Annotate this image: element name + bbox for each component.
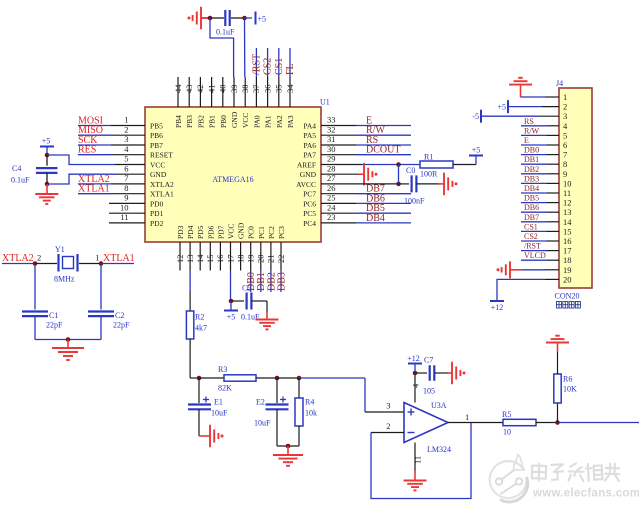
svg-text:PA5: PA5 [303, 131, 316, 140]
wire net DB4 [521, 192, 547, 194]
resistor R4 [295, 398, 303, 426]
svg-text:XTLA1: XTLA1 [150, 190, 174, 199]
wire [277, 377, 299, 379]
svg-text:PB6: PB6 [150, 131, 163, 140]
svg-text:PB7: PB7 [150, 141, 163, 150]
svg-text:C1: C1 [49, 311, 58, 320]
resistor R1 [420, 161, 453, 168]
wire output [558, 422, 639, 424]
watermark logo [490, 455, 528, 502]
ground (C0) [444, 173, 458, 196]
svg-text:2: 2 [386, 421, 390, 431]
wire net DB0 [521, 154, 547, 156]
pin 38 stub [244, 77, 246, 107]
svg-text:1: 1 [563, 92, 567, 102]
wire net CS1 [521, 230, 547, 232]
svg-text:3: 3 [563, 111, 567, 121]
wire net CS1 [278, 48, 280, 77]
power +5 (C5) [224, 311, 238, 322]
wire net MOSI [78, 125, 111, 127]
svg-text:+5: +5 [497, 103, 506, 112]
wire [198, 378, 200, 403]
wire ground stem [287, 446, 289, 455]
op-amp + input mark [408, 409, 415, 416]
wire net VLCD [521, 259, 547, 261]
capacitor C7 [430, 365, 435, 381]
wire to capacitor [210, 17, 224, 19]
svg-text:6: 6 [563, 140, 567, 150]
wire ground stem [201, 17, 209, 19]
op-amp - input mark [408, 432, 415, 434]
resistor R2 [186, 311, 193, 339]
svg-text:11: 11 [563, 188, 571, 198]
pin 4 wire [111, 154, 145, 156]
wire [557, 352, 559, 374]
J4 pin 16 wire [547, 240, 559, 242]
svg-text:13: 13 [563, 207, 572, 217]
wire [198, 409, 200, 436]
svg-text:GND: GND [300, 170, 317, 179]
wire net XTLA1 [78, 193, 111, 195]
svg-text:PB0: PB0 [219, 115, 228, 128]
svg-text:4k7: 4k7 [195, 324, 207, 333]
power +5 (R1) [469, 146, 483, 156]
wire [277, 445, 299, 447]
svg-text:PB4: PB4 [174, 115, 183, 128]
wire to C7 [415, 372, 427, 374]
pin 10 stub [109, 212, 145, 214]
wire [231, 300, 244, 302]
svg-text:14: 14 [195, 254, 205, 263]
svg-text:C0: C0 [406, 166, 415, 175]
wire ground stem [358, 173, 364, 175]
svg-text:PA6: PA6 [303, 141, 316, 150]
wire net DB2 [521, 173, 547, 175]
junction AREF [396, 162, 401, 167]
wire net DB4 [356, 222, 411, 224]
svg-text:PA0: PA0 [252, 115, 261, 128]
power +5 (C4) [40, 137, 54, 147]
svg-text:U1: U1 [320, 98, 330, 107]
J4 pin 9 wire [547, 173, 559, 175]
wire [522, 269, 545, 271]
svg-text:PD2: PD2 [150, 219, 164, 228]
svg-text:PA3: PA3 [286, 115, 295, 128]
svg-text:R2: R2 [195, 313, 204, 322]
svg-text:DB6: DB6 [524, 203, 539, 212]
svg-text:17: 17 [563, 246, 572, 256]
wire [417, 183, 439, 185]
svg-text:9: 9 [563, 169, 567, 179]
ground (E2/R4) [273, 455, 303, 466]
svg-text:PD7: PD7 [216, 225, 225, 239]
svg-text:PA7: PA7 [303, 151, 316, 160]
svg-text:PC7: PC7 [303, 190, 316, 199]
svg-text:13: 13 [185, 255, 195, 264]
svg-text:22pF: 22pF [113, 321, 130, 330]
svg-text:37: 37 [251, 85, 261, 94]
wire net DB0 [250, 271, 252, 293]
pin 1 wire [111, 125, 145, 127]
crystal Y1 [59, 254, 78, 272]
svg-text:VLCD: VLCD [524, 251, 546, 260]
svg-text:CS1: CS1 [524, 222, 538, 231]
svg-text:PD0: PD0 [150, 199, 164, 208]
svg-text:R1: R1 [424, 153, 433, 162]
svg-text:2: 2 [563, 102, 567, 112]
wire net CS2 [267, 48, 269, 77]
junction C5 [229, 299, 234, 304]
wire net /RST [521, 250, 547, 252]
wire pin 17 [230, 271, 232, 302]
wire ground stem [520, 85, 522, 97]
svg-text:+5: +5 [472, 146, 481, 155]
svg-text:VCC: VCC [241, 113, 250, 128]
resistor R6 [554, 374, 561, 403]
ground (C5) [256, 320, 279, 330]
svg-text:PA2: PA2 [275, 115, 284, 128]
svg-text:21: 21 [266, 255, 276, 264]
wire [189, 339, 191, 378]
svg-text:GND: GND [237, 222, 246, 239]
wire net DCOUT [356, 154, 411, 156]
svg-text:33: 33 [327, 115, 336, 125]
svg-text:VCC: VCC [227, 224, 236, 239]
junction (GND net) [208, 16, 213, 21]
svg-text:20: 20 [256, 255, 266, 264]
svg-text:Y1: Y1 [55, 245, 65, 254]
svg-text:www.elecfans.com: www.elecfans.com [532, 488, 639, 500]
wire GND pin [414, 443, 416, 472]
J4 pin 5 wire [547, 134, 559, 136]
junction R4 [297, 376, 302, 381]
pin 22 stub [280, 242, 282, 271]
wire [252, 300, 268, 302]
wire [199, 377, 224, 379]
wire pin 13 [189, 271, 191, 292]
svg-text:DB5: DB5 [366, 203, 385, 214]
capacitor E1 10uF (electrolytic) [188, 405, 211, 410]
svg-text:XTLA1: XTLA1 [103, 253, 135, 264]
svg-text:XTLA2: XTLA2 [2, 253, 34, 264]
pin 31 wire [321, 144, 356, 146]
wire [508, 106, 542, 108]
connector J4 CON20 body [559, 88, 592, 288]
capacitor 0.1uF (top) [225, 10, 229, 26]
svg-text:DB1: DB1 [524, 155, 539, 164]
svg-text:GND: GND [230, 111, 239, 128]
watermark text (CJK brush approximation) [532, 463, 620, 481]
wire [35, 339, 101, 341]
svg-text:0.1uF: 0.1uF [11, 176, 30, 185]
ground (C7) [452, 362, 466, 385]
svg-text:PD1: PD1 [150, 209, 164, 218]
J4 pin 1 wire [545, 96, 559, 98]
wire [190, 377, 199, 379]
wire [414, 365, 416, 374]
J4 pin 12 wire [547, 202, 559, 204]
pin 40 stub [222, 77, 224, 107]
ground (C4) [35, 194, 58, 204]
wire [79, 263, 101, 265]
svg-text:40: 40 [218, 85, 228, 94]
junction output [555, 420, 560, 425]
svg-text:DB6: DB6 [366, 193, 385, 204]
svg-text:10: 10 [503, 428, 511, 437]
J4 pin 10 wire [547, 182, 559, 184]
wire [435, 372, 449, 374]
svg-text:PB3: PB3 [185, 115, 194, 128]
wire net R/W [356, 134, 411, 136]
wire net FL [289, 48, 291, 77]
svg-text:DB7: DB7 [524, 213, 539, 222]
pin 15 stub [209, 242, 211, 271]
wire to +12 [497, 279, 545, 301]
pin 13 stub [189, 242, 191, 271]
pin 6 wire [115, 173, 145, 175]
svg-text:42: 42 [195, 85, 205, 94]
pin 28 wire [321, 173, 358, 175]
junction XTLA1 [99, 261, 104, 266]
svg-text:34: 34 [285, 84, 295, 93]
svg-text:PD6: PD6 [206, 225, 215, 239]
svg-text:U3A: U3A [431, 401, 447, 410]
svg-text:100R: 100R [420, 170, 438, 179]
wire [231, 17, 243, 19]
svg-text:/RST: /RST [524, 242, 541, 251]
pin 42 stub [199, 77, 201, 107]
svg-text:35: 35 [274, 85, 284, 94]
svg-text:R4: R4 [305, 398, 314, 407]
pin 43 stub [188, 77, 190, 107]
ground (top decoupling) [188, 7, 202, 30]
svg-text:PC6: PC6 [303, 199, 316, 208]
pin 34 stub [289, 77, 291, 107]
svg-text:VCC: VCC [150, 161, 165, 170]
op-amp pin 2 wire [371, 432, 404, 434]
wire AREF [362, 164, 420, 166]
svg-text:RS: RS [524, 117, 534, 126]
svg-text:GND: GND [150, 170, 167, 179]
svg-text:FL: FL [285, 63, 296, 75]
pin 19 stub [250, 242, 252, 271]
pin 12 stub [179, 242, 181, 271]
pin 44 stub [177, 77, 179, 107]
power +12 (U3A) [407, 354, 422, 364]
wire [481, 115, 540, 117]
svg-text:39: 39 [229, 85, 239, 94]
svg-text:PD3: PD3 [176, 225, 185, 239]
svg-text:R5: R5 [502, 410, 511, 419]
wire net XTLA2 [78, 183, 111, 185]
pin 39 stub [233, 77, 235, 107]
svg-text:44: 44 [173, 84, 183, 93]
resistor R3 [224, 375, 256, 381]
svg-text:AVCC: AVCC [296, 180, 316, 189]
wire to C0 [399, 183, 410, 185]
ground (R6) [546, 336, 569, 343]
power +5 (J4) [497, 100, 508, 113]
wire ground stem [266, 312, 268, 320]
pin 11 stub [109, 222, 145, 224]
svg-text:+5: +5 [42, 137, 51, 146]
J4 pin 4 wire [547, 125, 559, 127]
pin 23 wire [321, 222, 356, 224]
svg-text:PC0: PC0 [247, 226, 256, 239]
svg-text:R6: R6 [563, 375, 572, 384]
junction E2 [275, 376, 280, 381]
svg-text:E: E [366, 116, 372, 127]
junction AVCC [396, 182, 401, 187]
J4 pin 8 wire [547, 163, 559, 165]
svg-text:PB5: PB5 [150, 122, 163, 131]
wire to ground [46, 184, 48, 194]
wire up to +5 [475, 157, 477, 165]
wire [189, 291, 191, 311]
wire net E [356, 125, 411, 127]
svg-text:38: 38 [240, 85, 250, 94]
J4 pin 2 wire [542, 106, 559, 108]
wire net CS2 [521, 240, 547, 242]
svg-text:AREF: AREF [297, 161, 316, 170]
J4 pin 14 wire [547, 221, 559, 223]
svg-text:CON20: CON20 [555, 292, 580, 301]
capacitor C2 [88, 312, 114, 317]
svg-text:R3: R3 [218, 365, 227, 374]
wire net DB7 [356, 193, 411, 195]
svg-text:DB5: DB5 [524, 194, 539, 203]
junction C4 bottom [45, 182, 50, 187]
capacitor C4 [36, 168, 58, 173]
svg-text:CS2: CS2 [524, 232, 538, 241]
svg-text:19: 19 [563, 265, 572, 275]
junction E1 [197, 376, 202, 381]
wire net E [521, 144, 547, 146]
ground (E1) [210, 425, 224, 448]
svg-text:E1: E1 [214, 398, 223, 407]
wire [521, 96, 546, 98]
pin 8 wire [111, 193, 145, 195]
power -5 [472, 110, 481, 123]
svg-text:0.1uF: 0.1uF [216, 28, 235, 37]
svg-text:+5: +5 [257, 15, 266, 24]
capacitor C5 [247, 293, 252, 310]
svg-text:PC4: PC4 [303, 219, 316, 228]
wire net DB6 [521, 211, 547, 213]
wire ground stem [414, 471, 416, 481]
svg-text:100nF: 100nF [404, 197, 425, 206]
svg-text:CS2: CS2 [263, 58, 274, 75]
wire GND to pin 39 [210, 18, 234, 77]
svg-text:22: 22 [276, 255, 286, 264]
wire [35, 263, 57, 265]
wire net DB7 [521, 221, 547, 223]
op-amp pin 3 wire [365, 411, 404, 413]
svg-text:3: 3 [386, 401, 390, 411]
pin 14 stub [199, 242, 201, 271]
wire net DB3 [521, 182, 547, 184]
svg-text:DB7: DB7 [366, 184, 385, 195]
wire [276, 378, 278, 403]
svg-text:PC1: PC1 [257, 226, 266, 239]
wire ground stem [438, 183, 444, 185]
wire net RS [521, 125, 547, 127]
wire [536, 422, 558, 424]
junction ground [286, 444, 291, 449]
wire [34, 264, 36, 310]
J4 pin 18 wire [547, 259, 559, 261]
svg-text:1: 1 [95, 253, 99, 263]
wire [298, 426, 300, 446]
wire net DB5 [356, 212, 411, 214]
svg-text:8MHz: 8MHz [54, 275, 75, 284]
J4 pin 13 wire [547, 211, 559, 213]
svg-text:18: 18 [563, 255, 572, 265]
svg-text:PC5: PC5 [303, 209, 316, 218]
svg-text:CS1: CS1 [274, 58, 285, 75]
svg-text:DB4: DB4 [524, 184, 539, 193]
wire V+ pin [414, 373, 416, 403]
pin 26 wire [321, 193, 356, 195]
wire [46, 173, 48, 184]
junction C4 top [45, 153, 50, 158]
svg-text:22pF: 22pF [46, 321, 63, 330]
power +12 [490, 301, 504, 312]
svg-text:PA4: PA4 [303, 122, 316, 131]
wire ground stem [448, 372, 452, 374]
pin 2 wire [111, 134, 145, 136]
svg-text:RS: RS [366, 135, 378, 146]
wire to pin 3 [364, 378, 366, 412]
svg-text:E2: E2 [256, 398, 265, 407]
wire AREF-AVCC [398, 165, 400, 184]
E2 polarity + [280, 397, 286, 403]
svg-text:DB3: DB3 [276, 272, 287, 291]
junction XTLA2 [33, 261, 38, 266]
capacitor C1 [22, 312, 48, 317]
svg-text:2: 2 [37, 253, 41, 263]
wire +5 to pin 38 [244, 18, 246, 77]
svg-text:105: 105 [423, 387, 435, 396]
svg-text:1: 1 [465, 412, 469, 422]
wire ground stem [67, 340, 69, 349]
J4 pin 19 wire [545, 269, 559, 271]
J4 pin 15 wire [547, 230, 559, 232]
svg-text:R/W: R/W [366, 125, 385, 136]
ground (pin 28) [364, 163, 378, 186]
pin 24 wire [321, 212, 356, 214]
junction ground [66, 337, 71, 342]
svg-text:7: 7 [563, 150, 567, 160]
svg-text:ATMEGA16: ATMEGA16 [212, 175, 253, 184]
svg-text:-5: -5 [472, 112, 479, 121]
svg-text:12: 12 [175, 255, 185, 264]
wire net XTLA2 [2, 263, 35, 265]
wire R1 to +5 [453, 164, 476, 166]
op-amp output wire [448, 422, 503, 424]
svg-text:17: 17 [225, 255, 235, 264]
wire net DB3 [280, 271, 282, 293]
wire to op-amp [299, 377, 365, 379]
svg-text:C4: C4 [12, 164, 21, 173]
ground (U3A) [404, 481, 427, 491]
svg-text:10uF: 10uF [211, 409, 228, 418]
svg-text:41: 41 [206, 85, 216, 94]
IC U1 ATMEGA16 body [145, 107, 321, 242]
wire net DB2 [270, 271, 272, 293]
pin 7 wire [111, 183, 145, 185]
J4 pin 17 wire [547, 250, 559, 252]
